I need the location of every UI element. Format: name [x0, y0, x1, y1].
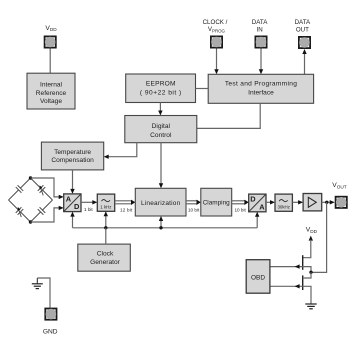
wire OBD to Q1 gate (arrow left mid-wire)	[270, 264, 303, 268]
junction bridge top vertex	[29, 176, 32, 179]
wire ADC to 1kHz filter (arrow right)	[81, 200, 97, 204]
wire VDD arrow to Q1 drain	[303, 236, 313, 258]
svg-text:GND: GND	[43, 329, 58, 336]
ground symbol (bottom left)	[32, 278, 43, 289]
wire clock generator to clock line	[105, 228, 107, 244]
transistor Q1 (upper output FET)	[303, 255, 311, 272]
arm bottom-right with capacitor C4	[31, 200, 53, 222]
label DATA IN	[252, 19, 268, 33]
arm top-left with capacitor C1	[9, 178, 31, 200]
wire DAC to 30kHz filter (arrow right)	[266, 200, 275, 204]
svg-text:1 bit: 1 bit	[84, 207, 93, 212]
svg-text:DATA: DATA	[295, 19, 311, 26]
wire clock riser to ADC (arrow up)	[70, 212, 74, 228]
junction VOUT node	[325, 201, 328, 204]
svg-text:Digital: Digital	[152, 123, 171, 130]
filter low-pass 30 kHz	[275, 194, 292, 211]
wire EEPROM to Test interface	[196, 88, 209, 90]
block EEPROM ( 90+22 bit )	[126, 74, 196, 103]
net VOUT feedback wire down to output stage	[311, 202, 327, 272]
transistor Q2 (lower output FET)	[303, 272, 311, 303]
svg-text:10 bit: 10 bit	[235, 208, 247, 213]
wire OBD to Q2 gate (arrow left mid-wire)	[270, 284, 303, 288]
wire Temperature Compensation to ADC (arrow down)	[70, 170, 74, 194]
wire Test interface to Digital Control	[197, 103, 260, 128]
svg-text:( 90+22 bit ): ( 90+22 bit )	[140, 90, 182, 97]
wire clock riser to 1kHz filter (arrow up)	[104, 211, 108, 228]
pad CLOCK / VPROG	[210, 36, 223, 49]
svg-text:Test and Programming: Test and Programming	[225, 81, 297, 88]
svg-text:CLOCK /: CLOCK /	[203, 19, 228, 26]
node output stage junction	[309, 271, 312, 274]
wire EEPROM to Digital Control (arrow down)	[158, 103, 162, 116]
wire clock riser to Linearization (arrow up)	[159, 216, 163, 228]
pad DATA IN	[255, 36, 268, 49]
svg-text:D: D	[74, 202, 80, 211]
clock distribution wire	[73, 227, 258, 229]
block Clock Generator	[78, 244, 131, 271]
ADC converter A/D	[64, 194, 81, 212]
wire buffer to VOUT pad (arrow right)	[322, 200, 335, 204]
svg-text:A: A	[66, 194, 72, 203]
block Clamping	[201, 188, 232, 216]
output buffer amplifier	[303, 194, 322, 211]
svg-text:30kHz: 30kHz	[277, 204, 289, 209]
svg-text:Clock: Clock	[97, 250, 114, 257]
DAC converter D/A	[249, 194, 266, 212]
svg-text:Internal: Internal	[40, 81, 63, 88]
svg-text:Interface: Interface	[248, 90, 274, 97]
junction clock node at Linearization	[159, 226, 162, 229]
block Temperature Compensation	[41, 142, 103, 170]
svg-text:Linearization: Linearization	[141, 200, 181, 207]
block Test and Programming Interface	[208, 74, 313, 103]
pad VDD top-left	[44, 36, 57, 49]
wire VDD pad to Internal Reference Voltage	[49, 49, 51, 74]
junction clock node at clock generator	[104, 226, 107, 229]
bus 1kHz filter to Linearization, 12 bit (double line arrow)	[115, 200, 136, 205]
wire ground symbol to GND pad	[37, 278, 50, 308]
wire clock riser to DAC (arrow up)	[255, 212, 259, 228]
label DATA OUT	[295, 19, 311, 33]
block Linearization	[135, 188, 186, 216]
svg-text:A: A	[259, 202, 265, 211]
wire Digital Control to Linearization (arrow down)	[159, 143, 163, 189]
block OBD	[246, 260, 270, 294]
arm top-right with variable capacitor C2	[31, 178, 53, 200]
wire DATA IN pad to Test interface (arrow down)	[259, 49, 263, 75]
sensor bridge: capacitive sensing bridge	[9, 176, 53, 223]
svg-text:DATA: DATA	[252, 19, 268, 26]
wire bridge bottom to ADC (arrow right)	[31, 206, 64, 222]
junction bridge bottom vertex	[29, 220, 32, 223]
filter low-pass 1 kHz	[97, 194, 114, 211]
svg-text:IN: IN	[257, 27, 263, 34]
svg-text:Voltage: Voltage	[40, 98, 62, 105]
svg-text:OBD: OBD	[251, 274, 265, 281]
svg-text:Reference: Reference	[36, 90, 67, 97]
svg-text:OUT: OUT	[296, 27, 309, 34]
block Digital Control	[125, 116, 197, 143]
svg-text:10 bit: 10 bit	[188, 208, 200, 213]
label CLOCK / VPROG	[203, 19, 228, 33]
pad VOUT	[335, 196, 348, 209]
svg-text:Clamping: Clamping	[203, 200, 230, 207]
svg-text:Control: Control	[150, 132, 172, 139]
svg-text:EEPROM: EEPROM	[146, 81, 176, 88]
wire Digital Control to Temperature Compensation (arrow left)	[104, 143, 137, 159]
bus Clamping to DAC, 10 bit	[232, 200, 249, 205]
svg-text:1 kHz: 1 kHz	[100, 204, 111, 209]
svg-text:Temperature: Temperature	[54, 149, 91, 156]
wire 30kHz filter to output buffer (arrow right)	[292, 200, 303, 204]
pad GND	[44, 308, 57, 321]
wire Test interface to DATA OUT pad (arrow up)	[302, 49, 306, 74]
block Internal Reference Voltage U-IRV	[27, 73, 75, 109]
svg-text:12 bit: 12 bit	[120, 207, 133, 212]
arm bottom-left with variable capacitor C3	[9, 200, 31, 222]
svg-text:D: D	[250, 194, 256, 203]
ground (output stage)	[305, 304, 316, 309]
bus Linearization to Clamping, 10 bit	[186, 200, 201, 205]
svg-text:Compensation: Compensation	[51, 157, 94, 164]
svg-text:Generator: Generator	[90, 259, 120, 266]
wire CLOCK pad to Test interface (arrow down)	[214, 49, 218, 75]
pad DATA OUT	[298, 36, 311, 49]
wire bridge top to ADC (arrow right)	[31, 178, 64, 199]
